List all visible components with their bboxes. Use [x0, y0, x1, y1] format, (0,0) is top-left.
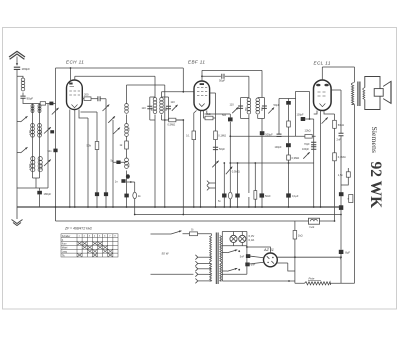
wire osc feedback — [127, 84, 165, 86]
table X marks — [77, 242, 113, 258]
coil L-ant — [21, 78, 25, 91]
capacitor 1nF — [121, 179, 125, 183]
wire grid elbow — [309, 118, 311, 120]
capacitor 8uF electrolytic — [339, 250, 344, 254]
svg-text:50pF: 50pF — [219, 147, 225, 151]
resistor 50k line — [81, 112, 98, 207]
resistor 0.3M — [287, 155, 291, 160]
svg-text:110: 110 — [171, 100, 176, 104]
wire EBF pin — [194, 111, 197, 208]
capacitor 70pF — [311, 142, 316, 144]
output transformer core — [358, 82, 360, 107]
capacitor 100pF tone — [311, 147, 316, 149]
wire — [112, 120, 114, 207]
resistor oval on pot line — [229, 199, 231, 207]
wire bottom return — [222, 280, 295, 282]
capacitor 0.1uF to bus — [286, 193, 291, 197]
wire grid2 — [82, 98, 98, 100]
svg-text:ZF = 468/472 kHz: ZF = 468/472 kHz — [64, 227, 92, 231]
resistor 1k oval — [133, 192, 137, 198]
capacitor to ground — [124, 194, 128, 198]
output transformer secondary — [363, 88, 365, 100]
ground symbol — [16, 207, 18, 219]
field coil resistor line — [294, 221, 296, 283]
trimmer IF2 secondary — [268, 108, 274, 114]
resistor 62k — [205, 116, 213, 120]
resistor field — [293, 231, 297, 240]
svg-text:0,5MΩ: 0,5MΩ — [168, 122, 176, 126]
trimmer IF1 — [172, 105, 178, 111]
wire junction — [127, 182, 135, 215]
wire band filter columns — [33, 104, 40, 179]
wire — [164, 85, 166, 207]
svg-text:180pF: 180pF — [44, 192, 52, 196]
svg-text:8µF: 8µF — [345, 251, 350, 255]
capacitor block — [50, 130, 54, 133]
wire diode out — [207, 111, 231, 208]
capacitor to ground 3 — [95, 192, 99, 196]
terminal TA arrows — [207, 181, 209, 186]
tube ECH11 electrodes — [69, 87, 80, 108]
capacitor block — [49, 102, 53, 106]
svg-text:200: 200 — [84, 92, 89, 96]
switch tone — [303, 152, 309, 159]
trimmer IF2 primary — [232, 107, 238, 113]
switch S1 wave band — [17, 121, 21, 123]
capacitor plates — [277, 134, 282, 136]
wire det top link — [296, 92, 310, 120]
svg-text:Lang: Lang — [62, 251, 68, 253]
svg-text:Mittel: Mittel — [62, 247, 68, 250]
mains switch — [171, 231, 182, 234]
wire antenna down — [16, 69, 18, 207]
wire IF1 primary top — [150, 76, 155, 207]
wire plate to OPT — [322, 67, 354, 83]
svg-text:0,1: 0,1 — [186, 135, 190, 138]
antenna — [9, 51, 25, 59]
capacitor block — [53, 149, 57, 153]
svg-text:0,3: 0,3 — [128, 163, 131, 167]
capacitor 50nF to bus — [260, 193, 265, 197]
wire — [55, 68, 57, 207]
wire ECL11 plate top — [321, 67, 323, 80]
capacitor 50pF series — [222, 74, 224, 79]
speaker cone — [383, 81, 391, 103]
wire AZ11 heater taps — [247, 256, 264, 265]
wire IF2 primary — [241, 76, 249, 207]
svg-text:0,5MΩ: 0,5MΩ — [232, 169, 240, 173]
capacitor IF2 primary — [238, 106, 243, 108]
switch TA — [212, 161, 218, 168]
trimmer T2 — [44, 160, 51, 167]
svg-text:50pF: 50pF — [274, 103, 280, 107]
trimmer osc 2 — [108, 116, 115, 123]
trimmer T1 — [44, 127, 51, 133]
tube ECH11 — [67, 80, 83, 110]
resistor 0.1M — [214, 131, 218, 140]
coil L1b — [38, 105, 41, 113]
wire AVC junction — [182, 68, 184, 92]
capacitor C-ant 180pF — [14, 67, 20, 69]
wave band switch table — [61, 234, 118, 257]
bus line 3 — [56, 207, 335, 221]
wire bottom heater — [222, 273, 247, 275]
svg-text:110: 110 — [142, 106, 147, 110]
svg-text:0,1MΩ: 0,1MΩ — [338, 155, 346, 159]
wire heater left — [221, 232, 223, 282]
svg-text:2nF: 2nF — [337, 137, 342, 141]
wire right ladder — [47, 104, 49, 189]
wire ECL11 grid pin — [314, 111, 317, 115]
wire — [22, 93, 24, 96]
trimmer ECL — [322, 117, 328, 123]
wire lamp bottom — [222, 245, 247, 247]
switch heater 2 — [222, 270, 227, 272]
wire det to bus — [288, 163, 290, 207]
coil IF1 secondary — [160, 98, 164, 114]
capacitor to ground 2 — [104, 192, 108, 196]
capacitor block b — [235, 194, 239, 198]
coil IF1 primary — [153, 98, 157, 114]
svg-text:110: 110 — [230, 103, 235, 107]
capacitor 5p bridge — [113, 161, 127, 163]
svg-text:180pF: 180pF — [22, 67, 31, 71]
wire ECL11 cathode pin — [320, 111, 322, 208]
wire band filter bottom — [17, 178, 48, 188]
capacitor 2nF — [339, 133, 344, 136]
capacitor 1.5nF branch — [341, 168, 348, 185]
wire IF2 secondary — [258, 70, 265, 207]
wire grid EBF11 — [162, 91, 195, 93]
capacitor 5nF a — [246, 254, 250, 258]
wire top bus 3 — [202, 69, 262, 71]
svg-text:0,51: 0,51 — [40, 130, 43, 135]
svg-text:92 WK: 92 WK — [367, 162, 384, 209]
wire top bus 4 with cap — [202, 75, 249, 77]
svg-text:50n: 50n — [48, 150, 53, 153]
wire AZ11 anode top — [247, 247, 271, 253]
resistor 0.5M — [169, 118, 176, 122]
coil IF2 primary — [247, 98, 251, 114]
svg-text:0,3MΩ: 0,3MΩ — [292, 156, 300, 160]
svg-text:5nF: 5nF — [240, 254, 245, 258]
bus line 2 — [135, 214, 341, 216]
resistor 0.1M — [333, 153, 337, 161]
wire 62k branch — [204, 111, 216, 119]
capacitor 8uF upper — [349, 195, 353, 203]
svg-text:Siemens: Siemens — [370, 127, 379, 153]
wire B+ output — [277, 256, 341, 258]
wire B+ vertical — [340, 210, 342, 283]
pilot lamp 1 — [233, 232, 235, 246]
speaker frame — [365, 77, 380, 110]
wire antenna tap — [17, 76, 23, 78]
bus junction dots — [55, 206, 57, 208]
mains voltage pins — [195, 255, 197, 260]
svg-text:ECH 11: ECH 11 — [66, 60, 84, 65]
wire top bus 1 — [56, 67, 184, 69]
svg-text:TA: TA — [62, 254, 65, 257]
svg-text:1,5n: 1,5n — [338, 173, 344, 177]
coil osc 1 — [125, 104, 129, 114]
capacitor IF1 secondary — [166, 106, 171, 108]
speaker magnet — [374, 89, 383, 97]
svg-text:EBF 11: EBF 11 — [188, 59, 205, 64]
svg-text:0,3A: 0,3A — [249, 238, 255, 242]
output transformer primary — [352, 83, 354, 105]
svg-text:500pF: 500pF — [265, 132, 273, 136]
trimmer osc 3 — [113, 128, 120, 135]
tube EBF11 electrodes — [197, 88, 207, 107]
svg-text:AZ 11: AZ 11 — [263, 248, 274, 252]
wire to band filter — [23, 98, 56, 103]
wire AF line — [230, 135, 315, 137]
svg-text:50k: 50k — [87, 143, 92, 147]
capacitor 50pF det — [286, 101, 291, 105]
capacitor 100pF — [301, 117, 306, 121]
power transformer primary — [211, 234, 213, 236]
svg-text:Feld: Feld — [310, 226, 315, 229]
resistor osc — [125, 141, 129, 149]
svg-text:1kΩ: 1kΩ — [298, 233, 303, 237]
trimmer osc 1 — [103, 105, 110, 112]
resistor 1M — [192, 131, 196, 140]
junction blob at bus — [339, 205, 343, 210]
wire grid top cap — [70, 68, 72, 80]
wire detector mid column — [288, 99, 290, 164]
tube EBF11 — [194, 81, 210, 111]
wire ECH11 pin elbow — [79, 110, 88, 208]
resistor Pote — [305, 282, 331, 285]
wire diode load — [210, 93, 216, 207]
wire EBF11 plate top — [201, 70, 203, 81]
wire osc grid — [100, 99, 106, 207]
svg-text:50pF: 50pF — [219, 78, 225, 82]
coil IF2 secondary — [256, 98, 260, 114]
capacitor round — [126, 174, 130, 179]
svg-text:0,1MΩ: 0,1MΩ — [218, 134, 226, 138]
svg-text:0,580: 0,580 — [29, 163, 32, 170]
wire to ground cap a — [223, 163, 225, 207]
capacitor to bus — [339, 192, 344, 196]
svg-text:70pF: 70pF — [304, 143, 310, 146]
capacitor series — [98, 96, 100, 101]
resistor 50k — [95, 142, 99, 150]
resistor 12k on AF line — [305, 135, 312, 139]
capacitor IF1 primary — [147, 106, 152, 108]
tube ECL11 — [314, 80, 332, 111]
wire heater right — [246, 232, 248, 275]
svg-text:ECL 11: ECL 11 — [314, 60, 331, 65]
mains input wire — [151, 273, 194, 275]
svg-text:100pF: 100pF — [302, 148, 310, 151]
wire to ground cap b — [237, 163, 239, 207]
svg-text:0,590: 0,590 — [41, 163, 44, 170]
wire ECL11 pin to Rk — [324, 111, 335, 222]
coil osc 2 — [125, 124, 129, 137]
svg-text:100pF: 100pF — [297, 114, 305, 117]
wire AZ11 cathode out — [277, 263, 295, 271]
svg-text:12kΩ: 12kΩ — [305, 128, 311, 132]
svg-text:Pote: Pote — [309, 276, 315, 280]
wire top bus 2 — [75, 75, 155, 77]
svg-text:Schalter: Schalter — [62, 235, 71, 238]
coil L2b — [38, 124, 42, 138]
capacitor IF2 secondary — [262, 106, 267, 108]
svg-text:50n: 50n — [222, 114, 227, 117]
coil L2a — [31, 124, 35, 138]
volume pot 0.5M — [226, 167, 233, 175]
wire IF1 secondary — [162, 92, 184, 120]
coil L3a — [31, 157, 35, 172]
wire EBF pin 2 — [200, 111, 202, 208]
resistor det — [287, 121, 291, 127]
capacitor 500pF — [260, 131, 265, 135]
capacitor 180pF bottom — [37, 191, 42, 195]
capacitor block a — [222, 194, 226, 198]
switch heater 1 — [222, 252, 227, 254]
wire plate top — [74, 76, 76, 80]
mains wire — [151, 233, 172, 235]
pilot lamp 2 — [241, 232, 243, 246]
svg-text:90pF: 90pF — [27, 96, 34, 100]
ground bus — [17, 206, 341, 208]
resistor to bus — [254, 163, 256, 207]
capacitor 5nF b — [245, 263, 249, 267]
resistor 200 — [84, 97, 91, 101]
svg-text:Kurz: Kurz — [62, 243, 68, 246]
detector top wire — [279, 99, 296, 137]
power transformer core — [216, 233, 218, 285]
capacitor 50nF — [228, 117, 233, 121]
svg-text:0,2: 0,2 — [128, 127, 131, 131]
resistor on antenna wire — [40, 102, 45, 105]
switch S2 wave band — [17, 152, 21, 154]
wire osc coil column — [126, 85, 128, 207]
wire grid cap 100pF — [301, 119, 314, 207]
capacitor 50pF — [213, 147, 218, 149]
capacitor 90pF — [20, 96, 25, 98]
resistor 50k — [333, 120, 337, 128]
power transformer secondary — [220, 236, 222, 282]
coil L1a — [31, 105, 34, 113]
coil L3b — [38, 157, 42, 172]
capacitor 100pF det — [286, 143, 291, 147]
svg-text:0,55: 0,55 — [29, 130, 32, 135]
svg-text:100pF: 100pF — [275, 146, 283, 149]
speaker field coil on bus — [309, 218, 320, 224]
wire AF bottom — [230, 162, 313, 164]
coil osc 3 — [125, 158, 129, 168]
tube ECL11 electrodes — [316, 84, 320, 87]
svg-text:50nF: 50nF — [265, 195, 271, 198]
wire screen stub — [331, 90, 341, 207]
wire bottom right — [295, 282, 355, 284]
svg-text:50 W: 50 W — [162, 252, 170, 256]
fuse Si — [183, 233, 212, 235]
rectifier tube AZ11 — [264, 253, 278, 267]
wire ECH11 pins — [70, 110, 75, 208]
svg-text:0,1µF: 0,1µF — [292, 195, 299, 198]
switch S3 — [52, 108, 59, 115]
wire lamp top — [222, 231, 247, 233]
